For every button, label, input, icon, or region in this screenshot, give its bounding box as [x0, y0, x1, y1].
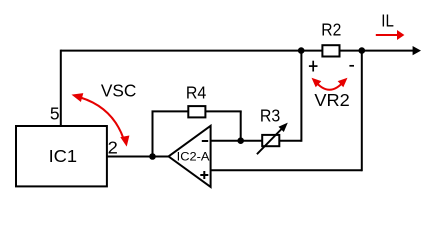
wire top horizontal [61, 50, 414, 52]
wire feedback top right [205, 110, 241, 112]
polarity plus R2 [309, 61, 318, 72]
svg-text:R4: R4 [186, 83, 207, 103]
output arrowhead [413, 46, 421, 55]
svg-text:R3: R3 [260, 106, 280, 126]
node output junction [149, 153, 156, 160]
IC1 [16, 126, 107, 186]
resistor R2 [322, 45, 339, 56]
svg-text:IL: IL [381, 11, 394, 31]
wire noninverting input horizontal [211, 169, 362, 171]
svg-text:2: 2 [108, 137, 118, 157]
wire R3 to right vertical [279, 140, 301, 142]
svg-text:5: 5 [50, 103, 60, 123]
svg-text:R2: R2 [321, 20, 341, 40]
op-amp IC2-A [169, 126, 211, 187]
resistor R4 [188, 106, 205, 117]
wire feedback top left [152, 110, 189, 112]
current arrow IL [376, 30, 405, 40]
svg-text:IC1: IC1 [49, 146, 78, 166]
node inverting input junction [237, 137, 244, 144]
svg-text:IC2-A: IC2-A [177, 149, 211, 163]
op-amp minus mark [202, 140, 208, 142]
voltage arrow VSC [72, 93, 130, 147]
op-amp plus mark [200, 171, 208, 179]
node R2 left junction [298, 47, 305, 54]
wire right vertical to R2 right [361, 51, 363, 172]
variable resistor R3 [257, 123, 288, 155]
wire feedback vertical up [152, 111, 154, 156]
wire left vertical (pin 5) [60, 50, 62, 126]
wire vertical R3 up to top [300, 51, 302, 142]
polarity minus R2 [349, 65, 354, 67]
wire inverting input to R3 [211, 140, 263, 142]
wire pin 2 to op-amp output [107, 156, 170, 158]
voltage arrow VR2 [312, 78, 348, 90]
svg-text:VR2: VR2 [314, 90, 349, 110]
svg-text:VSC: VSC [101, 80, 136, 100]
wire feedback down to inverting input [240, 111, 242, 140]
node R2 right junction [359, 47, 366, 54]
